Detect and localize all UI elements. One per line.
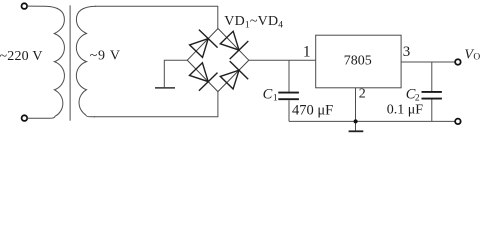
svg-text:VD1~VD4: VD1~VD4 [224, 14, 283, 30]
wire pin2 to ground [355, 88, 357, 131]
transformer secondary winding [76, 6, 96, 117]
terminal top-left [22, 3, 28, 9]
capacitor C2 lead top [431, 62, 433, 91]
wire top-left [27, 5, 45, 7]
wire secondary bottom to bridge [94, 92, 218, 117]
terminal bottom-right [455, 119, 461, 125]
diode VD3 bottom-left (anode L, cathode B) [190, 63, 218, 91]
capacitor C2 plates [422, 91, 442, 93]
bridge diamond wires [187, 29, 249, 92]
diode VD4 bottom-right (anode B, cathode R) [220, 61, 248, 89]
svg-text:O: O [473, 53, 480, 63]
svg-text:0.1 μF: 0.1 μF [387, 103, 424, 118]
svg-text:1: 1 [303, 43, 311, 60]
diode VD2 top-right (anode T, cathode R) [220, 31, 248, 59]
svg-text:7805: 7805 [344, 54, 372, 69]
wire bridge right node to regulator pin1 [249, 59, 316, 61]
ground (left) [155, 87, 175, 89]
wire bridge left node to ground [164, 60, 187, 87]
svg-text:2: 2 [359, 86, 366, 101]
transformer primary winding [45, 6, 64, 118]
capacitor C1 lead top [288, 60, 290, 91]
wire pin3 output [401, 61, 455, 63]
svg-text:~9 V: ~9 V [90, 49, 121, 64]
svg-text:C: C [263, 87, 273, 103]
ground (bottom) [349, 130, 364, 132]
wire secondary top to bridge [95, 6, 218, 28]
ground rail bottom right [289, 120, 455, 122]
junction dot pin2/rail [354, 119, 358, 123]
svg-text:470 μF: 470 μF [292, 103, 333, 119]
wire bottom-left [27, 117, 45, 119]
capacitor C1 lead bottom [288, 100, 290, 121]
capacitor C1 plates [278, 92, 299, 94]
svg-text:3: 3 [403, 44, 411, 60]
terminal bottom-left [22, 115, 28, 121]
diode VD1 top-left (anode L, cathode T) [190, 30, 218, 58]
capacitor C2 lead bottom [431, 100, 433, 122]
diodes VD1-VD4 bridge rectifier [190, 30, 249, 91]
regulator 7805 box U1 [316, 35, 401, 88]
svg-text:~220 V: ~220 V [0, 49, 43, 64]
terminal output Vo [455, 59, 461, 65]
transformer core [69, 5, 71, 120]
svg-text:1: 1 [273, 93, 278, 103]
